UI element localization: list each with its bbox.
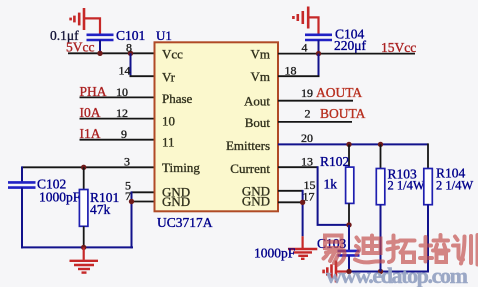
svg-text:I1A: I1A [80,126,101,141]
svg-text:19: 19 [301,86,313,100]
watermark chinese char tuo [388,236,415,263]
wire 15Vcc rail down to pin 18 [318,54,320,77]
wire Current down and right to R102 bottom [318,166,349,225]
wire left branch upper (to C102) [21,166,23,182]
wire pin 4 (15Vcc rail) [278,53,415,55]
wire pin 7 (GND) [132,201,155,203]
watermark chinese char yi [324,236,345,265]
svg-text:20: 20 [301,131,313,145]
svg-text:GND: GND [242,194,270,209]
svg-text:1000pF: 1000pF [254,246,296,261]
junction R102 top on Emitters rail [346,142,351,147]
junction R101 top on Timing rail [81,165,86,170]
svg-text:1000pF: 1000pF [39,190,81,205]
svg-text:10: 10 [162,113,175,128]
wire pin 18 [278,75,320,77]
svg-text:2 1/4W: 2 1/4W [388,178,425,192]
ground GND3 (rotated earth, top-right) [293,7,308,29]
junction pin14 branch on 5Vcc rail [128,51,133,56]
wire bottom-right rail [349,271,428,273]
wire C103 bottom lead [348,255,350,271]
wire pin 14 [130,75,155,77]
junction C103 bottom on rail [346,269,351,274]
wire R102 bottom lead [348,203,350,225]
junction R103 bottom on rail [378,269,383,274]
watermark chinese char xun [453,235,478,265]
svg-text:GND: GND [162,194,190,209]
resistor R102 [346,167,354,203]
wire 5Vcc rail down to pin 14 [130,53,132,76]
wire R103 bottom lead [380,205,382,272]
wire pin 9 (I1A) [80,139,155,141]
wire R103 top lead [380,144,382,168]
svg-text:13: 13 [301,154,313,168]
wire pins 5/7 down to bottom rail [131,191,133,248]
svg-text:Emitters: Emitters [226,138,270,153]
capacitor C103 [338,251,360,256]
wire C104 lead to 15Vcc rail [318,40,320,54]
wire R102 top lead [348,144,350,167]
IC U1 right pin names [226,47,270,209]
wire pin 13 (Current) [278,166,318,168]
wire R101 top lead [83,167,85,189]
wire pin 17 (GND) [278,201,303,203]
svg-text:1k: 1k [324,177,338,192]
watermark chinese char pei [420,235,449,262]
svg-text:Vcc: Vcc [162,47,183,62]
svg-text:47k: 47k [90,202,111,217]
resistor R103 [376,169,385,205]
svg-text:14: 14 [119,63,131,77]
wire pin 20 (Emitters rail) [278,143,428,145]
wire R104 top lead [427,143,429,168]
wire left branch lower (C102 to bottom rail) [21,188,23,249]
ground GND2 (earth, below R101) [70,247,99,272]
svg-text:220μf: 220μf [334,38,366,53]
wire R104 bottom lead [427,205,429,273]
wire pin 12 (I0A) [80,118,155,120]
IC U1 left pin names [162,47,200,209]
wire pin 3 (Timing rail) [22,166,154,168]
svg-text:8: 8 [126,40,132,54]
svg-text:Aout: Aout [244,94,270,109]
ground GND5 (rotated earth, bottom) [324,261,336,283]
ground GND1 (rotated earth, top-left) [71,8,84,30]
wire GND5 stub (red) [336,270,349,272]
junction R103 top on Emitters rail [378,142,383,147]
svg-text:2 1/4W: 2 1/4W [436,178,473,192]
svg-text:5Vcc: 5Vcc [66,40,94,55]
svg-text:www.edatop.com: www.edatop.com [326,263,468,287]
svg-text:U1: U1 [156,28,172,43]
junction R101 bottom on bottom rail [81,245,86,250]
svg-text:11: 11 [162,135,175,150]
svg-text:UC3717A: UC3717A [157,215,213,230]
wire pin 15 (GND) [278,190,303,192]
wire bottom-left rail [21,246,133,248]
svg-text:Phase: Phase [162,91,193,106]
svg-text:Vm: Vm [251,47,271,62]
svg-text:Vm: Vm [251,69,271,84]
svg-text:15Vcc: 15Vcc [381,40,416,55]
junction Current/R102/C103 [346,222,351,227]
svg-text:R102: R102 [320,154,349,169]
ground GND4 (earth, below pins 15/17) [288,236,317,258]
junction pin5/pin7 [129,199,134,204]
resistor R104 [424,169,433,205]
svg-text:18: 18 [285,63,297,77]
capacitor C104 [305,35,332,40]
wire C103 top lead [348,225,350,250]
wire GND1 to C101 (red elbow) [84,18,100,34]
wire pin 8 (5Vcc rail) [68,52,154,54]
wire pin 19 (AOUTA) [278,100,353,102]
svg-text:Vr: Vr [162,70,176,85]
junction C104/15Vcc [316,51,321,56]
svg-text:Current: Current [230,161,270,176]
svg-text:Bout: Bout [245,115,271,130]
svg-text:BOUTA: BOUTA [320,106,366,121]
svg-text:2: 2 [305,107,311,121]
wire pin 10 (PHA) [80,96,155,98]
wire GND3 to C104 (red elbow) [308,17,318,34]
svg-text:Timing: Timing [162,160,200,175]
wire R101 bottom lead [83,226,85,247]
svg-text:4: 4 [302,40,308,54]
svg-text:I0A: I0A [80,105,101,120]
junction pin15/pin17 [300,200,305,205]
svg-text:3: 3 [124,154,130,168]
watermark chinese char di [355,236,383,263]
svg-text:AOUTA: AOUTA [316,85,362,100]
wire C101 lead to 5Vcc rail [99,40,101,53]
svg-text:9: 9 [121,127,127,141]
wire pin 5 (GND) [132,191,155,193]
svg-text:10: 10 [116,85,128,99]
junction C101/5Vcc [97,51,102,56]
capacitor C102 [8,182,36,187]
capacitor C101 [87,35,114,40]
svg-text:12: 12 [116,106,128,120]
resistor R101 [79,190,88,227]
wire pins 15/17 down to ground [302,190,304,236]
IC U1 body [155,42,279,211]
wire pin 2 (BOUTA) [278,121,352,123]
